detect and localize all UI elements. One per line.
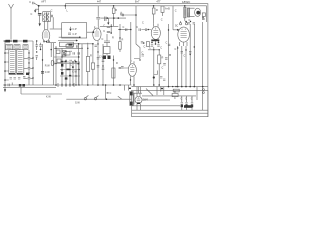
svg-text:5C: 5C bbox=[175, 24, 178, 27]
svg-text:C: C bbox=[191, 97, 193, 100]
svg-text:R: R bbox=[122, 39, 124, 42]
svg-text:R.W: R.W bbox=[45, 64, 51, 67]
svg-text:C: C bbox=[162, 66, 164, 69]
svg-text:B+T: B+T bbox=[135, 0, 140, 3]
svg-text:C: C bbox=[136, 26, 138, 29]
svg-text:C: C bbox=[142, 52, 144, 55]
svg-text:R: R bbox=[115, 9, 117, 12]
svg-text:C: C bbox=[149, 46, 151, 49]
svg-text:C: C bbox=[181, 97, 183, 100]
svg-text:R: R bbox=[174, 91, 176, 94]
svg-text:C: C bbox=[31, 13, 33, 16]
svg-text:C: C bbox=[29, 1, 31, 4]
svg-text:C: C bbox=[175, 9, 177, 12]
svg-text:5W4: 5W4 bbox=[143, 99, 149, 102]
svg-text:C: C bbox=[185, 97, 187, 100]
svg-text:18WC: 18WC bbox=[182, 0, 191, 4]
svg-text:AFT: AFT bbox=[41, 1, 46, 4]
svg-text:C: C bbox=[166, 42, 168, 45]
svg-text:R: R bbox=[90, 55, 92, 58]
svg-text:C: C bbox=[160, 46, 162, 49]
svg-text:C: C bbox=[144, 46, 146, 49]
svg-text:C: C bbox=[174, 97, 176, 100]
svg-text:C: C bbox=[102, 38, 104, 41]
svg-text:C.W: C.W bbox=[99, 56, 105, 59]
svg-text:C.W: C.W bbox=[72, 70, 78, 73]
svg-text:C: C bbox=[123, 26, 125, 29]
svg-text:C: C bbox=[161, 19, 163, 22]
svg-text:C: C bbox=[184, 55, 186, 58]
svg-text:C.P: C.P bbox=[73, 28, 78, 31]
svg-text:C: C bbox=[110, 92, 112, 95]
svg-text:R: R bbox=[116, 62, 118, 65]
svg-text:K.W: K.W bbox=[46, 96, 51, 99]
svg-text:R: R bbox=[156, 9, 158, 12]
svg-text:A+B: A+B bbox=[165, 8, 170, 11]
svg-text:C: C bbox=[189, 19, 191, 22]
svg-text:R: R bbox=[112, 37, 114, 40]
svg-text:R: R bbox=[162, 57, 164, 60]
svg-text:C.P: C.P bbox=[73, 33, 78, 36]
svg-text:47T: 47T bbox=[156, 0, 161, 3]
svg-text:C: C bbox=[51, 10, 53, 13]
svg-text:C: C bbox=[142, 21, 144, 24]
svg-text:C.W: C.W bbox=[45, 71, 51, 74]
svg-text:447: 447 bbox=[97, 1, 102, 4]
svg-text:C: C bbox=[70, 64, 72, 67]
svg-text:C: C bbox=[175, 48, 177, 51]
svg-text:C: C bbox=[103, 25, 105, 28]
svg-text:C: C bbox=[103, 30, 105, 33]
svg-text:S.W: S.W bbox=[75, 101, 80, 104]
